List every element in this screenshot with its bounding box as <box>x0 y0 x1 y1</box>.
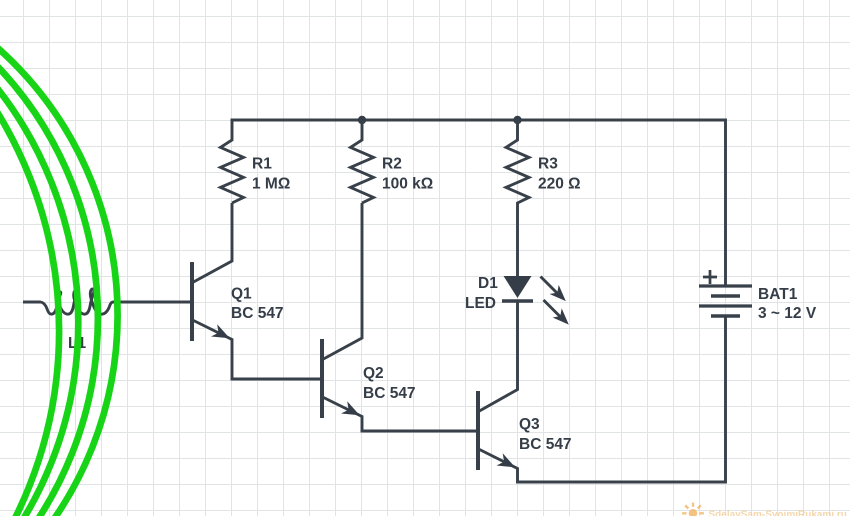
svg-text:3 ~ 12 V: 3 ~ 12 V <box>758 305 817 322</box>
transistor Q2 base bar <box>320 339 324 418</box>
transistor Q2 emitter wire <box>323 397 363 431</box>
antenna field line arc 4 (innermost green) <box>0 0 59 516</box>
battery BAT1 plate long <box>699 304 752 307</box>
wire Q2 emitter to Q3 base <box>361 430 479 433</box>
wire bottom rail to battery minus <box>516 316 726 482</box>
inductor L1 coil <box>23 289 192 314</box>
battery BAT1 plate short bottom <box>711 314 740 318</box>
svg-text:BC 547: BC 547 <box>519 436 572 453</box>
LED D1 triangle <box>504 276 532 298</box>
node junction dot at R2 top <box>358 116 366 124</box>
svg-text:1 MΩ: 1 MΩ <box>252 175 290 192</box>
svg-text:BAT1: BAT1 <box>758 286 798 303</box>
LED D1 cathode bar <box>502 299 533 303</box>
antenna field line arc 2 <box>0 0 98 516</box>
LED D1 light arrow 2 head <box>553 308 569 324</box>
svg-text:Q3: Q3 <box>519 416 540 433</box>
transistor Q2 emitter arrowhead <box>341 401 360 415</box>
svg-text:220 Ω: 220 Ω <box>538 175 581 192</box>
battery BAT1 plate short <box>711 294 740 298</box>
battery BAT1 plus sign <box>703 270 717 284</box>
svg-text:R2: R2 <box>382 155 402 172</box>
node junction dot at R3 top <box>513 116 521 124</box>
svg-text:R1: R1 <box>252 155 272 172</box>
LED D1 light arrow 2 shaft <box>544 300 561 317</box>
transistor Q1 base bar <box>190 262 194 341</box>
svg-text:R3: R3 <box>538 155 558 172</box>
LED D1 light arrow 1 shaft <box>541 277 558 294</box>
resistor R3 <box>506 120 529 276</box>
transistor Q3 emitter wire <box>479 449 518 482</box>
svg-text:BC 547: BC 547 <box>363 385 416 402</box>
svg-text:LED: LED <box>465 295 496 312</box>
transistor Q3 base bar <box>476 391 480 470</box>
svg-text:D1: D1 <box>478 275 498 292</box>
transistor Q3 emitter arrowhead <box>497 453 516 467</box>
transistor Q3 collector wire <box>479 301 518 412</box>
wire Q1 emitter to Q2 base <box>231 378 323 381</box>
wire top rail (V+ rail from R1 over to battery) <box>231 120 726 286</box>
watermark sun icon <box>682 503 704 516</box>
battery BAT1 plate long top <box>699 284 752 287</box>
antenna field line arc 3 <box>0 0 78 516</box>
svg-text:SdelaySam-SvoimiRukami.ru: SdelaySam-SvoimiRukami.ru <box>709 510 847 516</box>
svg-text:Q1: Q1 <box>231 285 252 302</box>
LED D1 light arrow 1 head <box>550 285 566 301</box>
resistor R1 <box>221 120 244 203</box>
svg-text:100 kΩ: 100 kΩ <box>382 175 433 192</box>
transistor Q2 collector wire <box>323 203 363 360</box>
transistor Q1 collector wire <box>193 203 233 283</box>
svg-text:BC 547: BC 547 <box>231 305 284 322</box>
transistor Q1 emitter arrowhead <box>211 324 230 338</box>
svg-text:Q2: Q2 <box>363 365 384 382</box>
resistor R2 <box>351 120 374 203</box>
antenna field line arc 1 (outermost green) <box>0 0 118 516</box>
transistor Q1 emitter wire <box>193 320 233 379</box>
